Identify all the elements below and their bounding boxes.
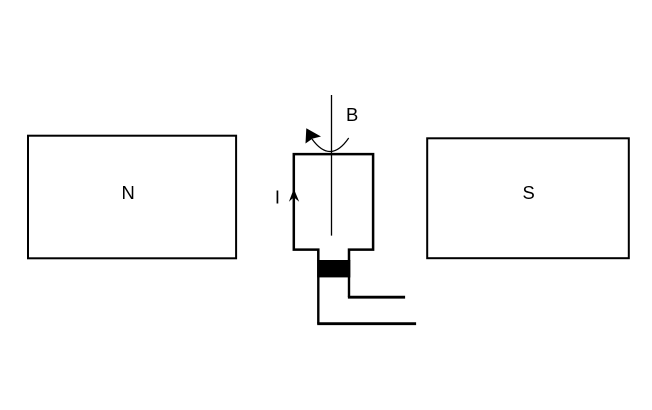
svg-text:S: S	[523, 182, 535, 203]
svg-text:B: B	[346, 104, 358, 125]
magnet S pole rectangle	[427, 138, 629, 258]
rotation arrow arc	[312, 138, 349, 152]
wire left lead vertical	[317, 260, 319, 324]
rotation arrowhead	[306, 128, 322, 143]
commutator black block	[317, 260, 350, 277]
svg-text:N: N	[122, 182, 135, 203]
coil loop outline	[294, 154, 373, 260]
rotation axis line	[331, 95, 333, 236]
wire lower horizontal	[317, 322, 416, 325]
wire right lead vertical	[348, 277, 350, 297]
current arrowhead on coil left side	[289, 189, 299, 202]
magnet N pole rectangle	[28, 136, 236, 259]
wire upper horizontal	[348, 296, 405, 299]
svg-text:I: I	[275, 187, 280, 208]
